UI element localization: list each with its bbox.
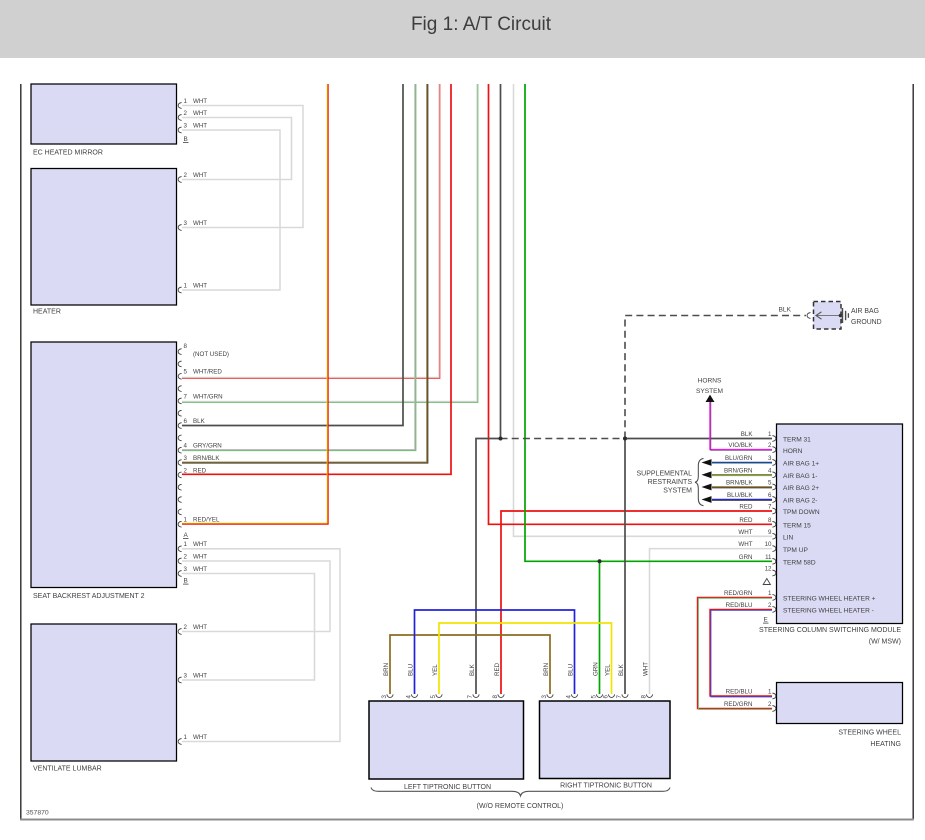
svg-text:TPM UP: TPM UP xyxy=(783,547,809,554)
svg-text:AIR BAG 1+: AIR BAG 1+ xyxy=(783,461,819,468)
module connector triangle xyxy=(763,579,770,585)
connector box HEATER xyxy=(31,169,177,306)
svg-text:1: 1 xyxy=(184,98,188,105)
wire WHT module pin9 LIN to top edge xyxy=(514,84,773,536)
seat backrest unused pin arc xyxy=(178,497,181,503)
svg-text:2: 2 xyxy=(768,442,772,449)
svg-text:SEAT BACKREST ADJUSTMENT 2: SEAT BACKREST ADJUSTMENT 2 xyxy=(33,593,145,600)
arrow SRS BRN/GRN xyxy=(702,471,712,478)
svg-text:AIR BAG: AIR BAG xyxy=(851,308,879,315)
heater pin 2 WHT xyxy=(178,172,207,183)
svg-text:BLU: BLU xyxy=(408,664,415,676)
svg-text:WHT: WHT xyxy=(193,220,207,227)
frame left border xyxy=(20,84,22,820)
module internal label TERM 58D xyxy=(783,560,816,567)
svg-text:10: 10 xyxy=(765,541,772,548)
svg-text:STEERING WHEEL HEATER -: STEERING WHEEL HEATER - xyxy=(783,608,874,615)
module pin 4 BRN/GRN xyxy=(724,467,776,477)
svg-text:WHT: WHT xyxy=(193,122,207,129)
seat connector A xyxy=(183,532,189,539)
module internal label TPM DOWN xyxy=(783,509,820,516)
wire BRN/BLK SRS to module xyxy=(712,486,772,489)
svg-text:RESTRAINTS: RESTRAINTS xyxy=(648,479,693,486)
box LEFT TIPTRONIC BUTTON xyxy=(369,701,524,779)
svg-text:RED: RED xyxy=(193,467,207,474)
svg-text:BRN/BLK: BRN/BLK xyxy=(193,455,220,462)
seat backrest pin 1 RED/YEL xyxy=(178,517,220,528)
label (W/O REMOTE CONTROL) xyxy=(477,803,564,810)
svg-text:6: 6 xyxy=(603,695,610,699)
module pin 6 BLU/BLK xyxy=(727,492,776,502)
wire WHT seat pin3 to ventilate lumbar pin3 xyxy=(182,574,315,681)
ventilate lumbar pin 3 WHT xyxy=(178,672,207,683)
right tiptronic pin 4 BLU xyxy=(566,664,578,699)
junction BLK right xyxy=(623,437,627,441)
seat backrest unused pin arc xyxy=(178,435,181,441)
svg-text:BLU: BLU xyxy=(568,664,575,676)
heater pin 1 WHT xyxy=(178,282,207,293)
svg-text:5: 5 xyxy=(591,695,598,699)
EC heated mirror connector B xyxy=(183,136,189,143)
svg-text:STEERING WHEEL HEATER +: STEERING WHEEL HEATER + xyxy=(783,596,876,603)
svg-text:BLK: BLK xyxy=(193,418,206,425)
svg-text:5: 5 xyxy=(184,369,188,376)
wire RED module pin8 TERM 15 to top edge xyxy=(489,84,773,524)
svg-text:12: 12 xyxy=(765,566,772,573)
wire BLK junction to module pin1 TERM 31 xyxy=(625,438,772,440)
svg-text:4: 4 xyxy=(768,467,772,474)
svg-text:RED/GRN: RED/GRN xyxy=(724,590,753,597)
svg-text:BLK: BLK xyxy=(741,431,754,438)
label STEERING WHEEL HEATING xyxy=(838,730,901,749)
wire WHT seat pin1 to ventilate lumbar pin1 xyxy=(182,549,340,742)
svg-text:WHT: WHT xyxy=(738,541,752,548)
svg-text:(W/O REMOTE CONTROL): (W/O REMOTE CONTROL) xyxy=(477,803,564,810)
svg-text:SUPPLEMENTAL: SUPPLEMENTAL xyxy=(637,470,693,477)
svg-text:SYSTEM: SYSTEM xyxy=(663,488,692,495)
svg-text:BLK: BLK xyxy=(469,663,476,676)
wire BLU left tiptronic pin4 to right tiptronic pin4 xyxy=(415,610,575,694)
svg-text:3: 3 xyxy=(184,455,188,462)
svg-text:HEATING: HEATING xyxy=(870,741,901,748)
svg-text:7: 7 xyxy=(467,695,474,699)
svg-text:WHT: WHT xyxy=(193,553,207,560)
svg-text:TERM 15: TERM 15 xyxy=(783,523,811,530)
ground symbol xyxy=(842,308,848,323)
svg-text:2: 2 xyxy=(184,553,188,560)
wire BLK junction down to right tiptronic pin7 xyxy=(624,439,626,695)
svg-text:1: 1 xyxy=(184,541,188,548)
wire BRN left tiptronic pin3 to right tiptronic pin3 xyxy=(390,635,550,694)
svg-text:TERM 58D: TERM 58D xyxy=(783,560,816,567)
wire WHT EC mirror pin3 to heater pin1 xyxy=(182,130,280,290)
connector box SEAT BACKREST ADJUSTMENT 2 xyxy=(31,342,177,588)
svg-text:1: 1 xyxy=(768,431,772,438)
seat pin 8 (NOT USED) xyxy=(178,343,229,358)
svg-text:BRN: BRN xyxy=(383,663,390,676)
svg-text:WHT/GRN: WHT/GRN xyxy=(193,393,223,400)
svg-text:BRN: BRN xyxy=(543,663,550,676)
svg-text:8: 8 xyxy=(184,343,188,350)
svg-text:RED: RED xyxy=(494,662,501,676)
module internal label AIR BAG 2+ xyxy=(783,485,819,492)
junction GRN xyxy=(598,559,602,563)
svg-text:8: 8 xyxy=(768,517,772,524)
seat backrest unused pin arc xyxy=(178,410,181,416)
wire RED seat pin2 to top edge xyxy=(182,84,451,474)
svg-text:2: 2 xyxy=(184,172,188,179)
air bag ground connector arc xyxy=(807,313,810,319)
svg-text:1: 1 xyxy=(184,517,188,524)
air bag ground wire and arrow xyxy=(816,312,843,319)
wire WHT EC mirror pin1 to heater pin3 xyxy=(182,106,303,228)
connector box EC HEATED MIRROR xyxy=(31,84,177,144)
left tiptronic pin 8 RED xyxy=(492,662,504,698)
svg-text:RED/BLU: RED/BLU xyxy=(726,602,753,609)
heater pin 3 WHT xyxy=(178,220,207,231)
seat backrest unused pin arc xyxy=(178,484,181,490)
wire BLK junction up to top edge xyxy=(500,84,502,439)
wire GRY/GRN seat pin4 to top edge xyxy=(182,84,416,451)
wire WHT seat pin2 to ventilate lumbar pin2 xyxy=(182,561,330,632)
module internal label AIR BAG 1+ xyxy=(783,461,819,468)
wire GRN branch to right tiptronic pin5 xyxy=(599,561,601,694)
svg-text:1: 1 xyxy=(184,734,188,741)
module internal label AIR BAG 2- xyxy=(783,498,817,505)
connector box VENTILATE LUMBAR xyxy=(31,624,177,761)
svg-text:WHT: WHT xyxy=(738,529,752,536)
seat backrest pin 3 BRN/BLK xyxy=(178,455,220,466)
svg-text:HORNS: HORNS xyxy=(698,378,722,385)
svg-text:YEL: YEL xyxy=(432,664,439,676)
module internal label HORN xyxy=(783,448,803,455)
EC heated mirror pin 2 WHT xyxy=(178,110,207,121)
module internal label TPM UP xyxy=(783,547,809,554)
module pin 3 BLU/GRN xyxy=(725,455,776,465)
wire BLU/BLK SRS to module xyxy=(712,499,772,502)
module internal label LIN xyxy=(783,535,793,542)
module pin 9 WHT xyxy=(738,529,775,539)
module pin 2 VIO/BLK xyxy=(728,442,775,452)
svg-text:3: 3 xyxy=(184,566,188,573)
svg-text:LEFT TIPTRONIC BUTTON: LEFT TIPTRONIC BUTTON xyxy=(404,784,491,791)
svg-text:B: B xyxy=(184,136,188,143)
junction BLK left xyxy=(499,437,503,441)
svg-text:2: 2 xyxy=(768,701,772,708)
svg-text:2: 2 xyxy=(184,624,188,631)
wire RED/YEL seat pin1 to top edge xyxy=(182,84,328,524)
svg-text:BLK: BLK xyxy=(618,663,625,676)
svg-text:E: E xyxy=(764,617,768,624)
svg-text:GRN: GRN xyxy=(593,662,600,676)
label LEFT TIPTRONIC BUTTON xyxy=(404,784,491,791)
label HEATER xyxy=(33,309,61,316)
svg-text:9: 9 xyxy=(768,529,772,536)
svg-text:TERM 31: TERM 31 xyxy=(783,437,811,444)
seat backrest pin 7 WHT/GRN xyxy=(178,393,222,404)
svg-text:WHT: WHT xyxy=(193,734,207,741)
wire WHT/RED seat pin5 to top edge xyxy=(182,84,440,378)
svg-text:A: A xyxy=(184,532,189,539)
svg-text:(NOT USED): (NOT USED) xyxy=(193,351,229,358)
right tiptronic pin 6 YEL xyxy=(603,664,615,699)
module internal label STEERING WHEEL HEATER + xyxy=(783,596,876,603)
svg-text:WHT/RED: WHT/RED xyxy=(193,369,222,376)
arrow SRS BLU/GRN xyxy=(702,459,712,466)
steering wheel heating pin 1 RED/BLU xyxy=(726,689,776,699)
svg-text:YEL: YEL xyxy=(605,664,612,676)
svg-text:Fig 1: A/T Circuit: Fig 1: A/T Circuit xyxy=(411,14,552,35)
svg-text:3: 3 xyxy=(768,455,772,462)
wire WHT module pin10 to right tiptronic pin8 xyxy=(650,549,773,694)
seat backrest pin 3 WHT xyxy=(178,566,207,577)
svg-text:4: 4 xyxy=(566,695,573,699)
svg-text:WHT: WHT xyxy=(193,672,207,679)
svg-text:WHT: WHT xyxy=(193,110,207,117)
svg-text:WHT: WHT xyxy=(193,566,207,573)
arrow SRS BLU/BLK xyxy=(702,496,712,503)
seat backrest pin 6 BLK xyxy=(178,418,205,429)
svg-text:3: 3 xyxy=(184,122,188,129)
svg-text:LIN: LIN xyxy=(783,535,793,542)
svg-text:(W/ MSW): (W/ MSW) xyxy=(869,639,901,646)
box RIGHT TIPTRONIC BUTTON xyxy=(540,701,671,779)
wire BLK left tiptronic pin7 up to junction xyxy=(476,439,501,695)
air bag ground box xyxy=(814,302,842,330)
module pin 1 RED/GRN xyxy=(724,590,776,600)
wire BLK dashed junction to junction xyxy=(501,438,626,440)
module internal label TERM 31 xyxy=(783,437,811,444)
right tiptronic pin 7 BLK xyxy=(616,663,628,698)
left tiptronic pin 7 BLK xyxy=(467,663,479,698)
svg-text:WHT: WHT xyxy=(193,98,207,105)
svg-text:2: 2 xyxy=(184,467,188,474)
wire BRN/GRN SRS to module xyxy=(712,474,772,477)
label EC HEATED MIRROR xyxy=(33,150,103,157)
figure number 357870 xyxy=(26,810,49,817)
wire RED module pin7 TPM DOWN to left tiptronic pin8 xyxy=(501,511,772,694)
label BLK at air bag ground xyxy=(779,307,792,314)
svg-text:357870: 357870 xyxy=(26,810,49,817)
arrow SRS BRN/BLK xyxy=(702,484,712,491)
svg-text:BLU/BLK: BLU/BLK xyxy=(727,492,753,499)
wire VIO/BLK horns system to module pin2 HORN xyxy=(710,402,772,451)
frame right border xyxy=(912,84,914,819)
svg-text:3: 3 xyxy=(541,695,548,699)
module internal label TERM 15 xyxy=(783,523,811,530)
svg-text:4: 4 xyxy=(406,695,413,699)
svg-text:B: B xyxy=(184,578,188,585)
svg-text:7: 7 xyxy=(768,504,772,511)
svg-text:1: 1 xyxy=(768,689,772,696)
module pin 1 BLK xyxy=(741,431,776,441)
svg-text:5: 5 xyxy=(430,695,437,699)
steering wheel heating pin 2 RED/GRN xyxy=(724,701,776,711)
svg-text:RED/GRN: RED/GRN xyxy=(724,701,753,708)
svg-text:STEERING WHEEL: STEERING WHEEL xyxy=(838,730,901,737)
label SEAT BACKREST ADJUSTMENT 2 xyxy=(33,593,145,600)
wire BLU/GRN SRS to module xyxy=(712,462,772,465)
label VENTILATE LUMBAR xyxy=(33,766,102,773)
arrow to horns system xyxy=(706,395,715,402)
svg-text:RED: RED xyxy=(739,517,753,524)
label STEERING COLUMN SWITCHING MODULE xyxy=(759,627,901,646)
module pin 11 GRN xyxy=(739,554,776,564)
left tiptronic pin 3 BRN xyxy=(381,663,393,699)
module connector E xyxy=(763,617,769,624)
seat backrest pin 1 WHT xyxy=(178,541,207,552)
wire BLK seat pin6 to top edge xyxy=(182,84,403,426)
svg-text:7: 7 xyxy=(616,695,623,699)
left tiptronic pin 4 BLU xyxy=(406,664,418,699)
svg-text:3: 3 xyxy=(184,220,188,227)
svg-text:VIO/BLK: VIO/BLK xyxy=(728,442,753,449)
module pin 12 xyxy=(765,566,776,576)
svg-text:6: 6 xyxy=(184,418,188,425)
svg-text:VENTILATE LUMBAR: VENTILATE LUMBAR xyxy=(33,766,102,773)
svg-text:8: 8 xyxy=(641,695,648,699)
svg-text:BLK: BLK xyxy=(779,307,792,314)
svg-text:WHT: WHT xyxy=(193,541,207,548)
module internal label AIR BAG 1- xyxy=(783,473,817,480)
wire BRN/BLK seat pin3 to top edge xyxy=(182,84,428,463)
header title bar xyxy=(0,0,925,58)
svg-text:STEERING COLUMN SWITCHING MODU: STEERING COLUMN SWITCHING MODULE xyxy=(759,627,901,634)
ventilate lumbar pin 2 WHT xyxy=(178,624,207,635)
seat backrest pin 2 WHT xyxy=(178,553,207,564)
svg-text:1: 1 xyxy=(768,590,772,597)
svg-text:BRN/BLK: BRN/BLK xyxy=(726,480,753,487)
seat connector B xyxy=(183,578,189,585)
module internal label STEERING WHEEL HEATER - xyxy=(783,608,874,615)
svg-text:GROUND: GROUND xyxy=(851,319,882,326)
seat backrest unused pin arc xyxy=(178,361,181,367)
svg-text:BRN/GRN: BRN/GRN xyxy=(724,467,753,474)
seat backrest pin 4 GRY/GRN xyxy=(178,443,222,454)
svg-text:HORN: HORN xyxy=(783,448,803,455)
module box STEERING COLUMN SWITCHING MODULE xyxy=(777,424,903,624)
box STEERING WHEEL HEATING xyxy=(777,683,903,724)
svg-text:RED/BLU: RED/BLU xyxy=(726,689,753,696)
svg-text:WHT: WHT xyxy=(193,624,207,631)
svg-text:AIR BAG 2+: AIR BAG 2+ xyxy=(783,485,819,492)
seat backrest unused pin arc xyxy=(178,386,181,392)
svg-text:RIGHT TIPTRONIC BUTTON: RIGHT TIPTRONIC BUTTON xyxy=(560,783,652,790)
svg-text:11: 11 xyxy=(765,554,772,561)
svg-text:3: 3 xyxy=(381,695,388,699)
svg-text:7: 7 xyxy=(184,393,188,400)
module pin 7 RED xyxy=(739,504,775,514)
svg-text:5: 5 xyxy=(768,480,772,487)
svg-text:8: 8 xyxy=(492,695,499,699)
wire WHT EC mirror pin2 to heater pin2 xyxy=(182,118,292,180)
label SUPPLEMENTAL RESTRAINTS SYSTEM xyxy=(637,470,693,494)
wire WHT/GRN seat pin7 to top edge xyxy=(182,84,478,402)
svg-text:2: 2 xyxy=(184,110,188,117)
EC heated mirror pin 3 WHT xyxy=(178,122,207,132)
svg-text:6: 6 xyxy=(768,492,772,499)
module pin 10 WHT xyxy=(738,541,775,551)
svg-text:EC HEATED MIRROR: EC HEATED MIRROR xyxy=(33,150,103,157)
seat backrest pin 2 RED xyxy=(178,467,206,478)
label HORNS SYSTEM xyxy=(696,378,723,396)
ventilate lumbar pin 1 WHT xyxy=(178,734,207,745)
wire YEL left tiptronic pin5 to right tiptronic pin6 xyxy=(439,623,612,694)
svg-text:HEATER: HEATER xyxy=(33,309,61,316)
svg-text:1: 1 xyxy=(184,282,188,289)
svg-text:AIR BAG 2-: AIR BAG 2- xyxy=(783,498,817,505)
EC heated mirror pin 1 WHT xyxy=(178,98,207,109)
svg-text:TPM DOWN: TPM DOWN xyxy=(783,509,820,516)
module pin 2 RED/BLU xyxy=(726,602,776,612)
svg-text:RED: RED xyxy=(739,504,753,511)
svg-text:GRN: GRN xyxy=(739,554,753,561)
right tiptronic pin 8 WHT xyxy=(641,662,653,699)
right tiptronic pin 5 GRN xyxy=(591,662,603,698)
wire BLK dashed to air bag ground xyxy=(625,316,806,439)
brace SUPPLEMENTAL RESTRAINTS SYSTEM xyxy=(695,459,704,506)
svg-text:AIR BAG 1-: AIR BAG 1- xyxy=(783,473,817,480)
frame bottom border xyxy=(20,819,914,821)
module pin 5 BRN/BLK xyxy=(726,480,776,490)
label RIGHT TIPTRONIC BUTTON xyxy=(560,783,652,790)
wire RED/GRN module to steering wheel heating pin2 xyxy=(698,597,773,709)
svg-text:RED/YEL: RED/YEL xyxy=(193,517,220,524)
label AIR BAG GROUND xyxy=(851,308,882,326)
wire GRN module pin11 TERM 58D to top edge xyxy=(525,84,772,561)
svg-text:WHT: WHT xyxy=(193,172,207,179)
right tiptronic pin 3 BRN xyxy=(541,663,553,699)
wire RED/BLU module to steering wheel heating pin1 xyxy=(710,609,772,697)
svg-text:GRY/GRN: GRY/GRN xyxy=(193,443,222,450)
svg-text:2: 2 xyxy=(768,602,772,609)
svg-text:WHT: WHT xyxy=(643,662,650,676)
underbrace w/o remote control xyxy=(371,788,670,796)
svg-text:4: 4 xyxy=(184,443,188,450)
svg-text:WHT: WHT xyxy=(193,282,207,289)
svg-text:BLU/GRN: BLU/GRN xyxy=(725,455,753,462)
left tiptronic pin 5 YEL xyxy=(430,664,442,699)
svg-text:3: 3 xyxy=(184,672,188,679)
module pin 8 RED xyxy=(739,517,775,527)
svg-text:SYSTEM: SYSTEM xyxy=(696,388,723,395)
seat backrest pin 5 WHT/RED xyxy=(178,369,222,380)
seat backrest unused pin arc xyxy=(178,509,181,515)
